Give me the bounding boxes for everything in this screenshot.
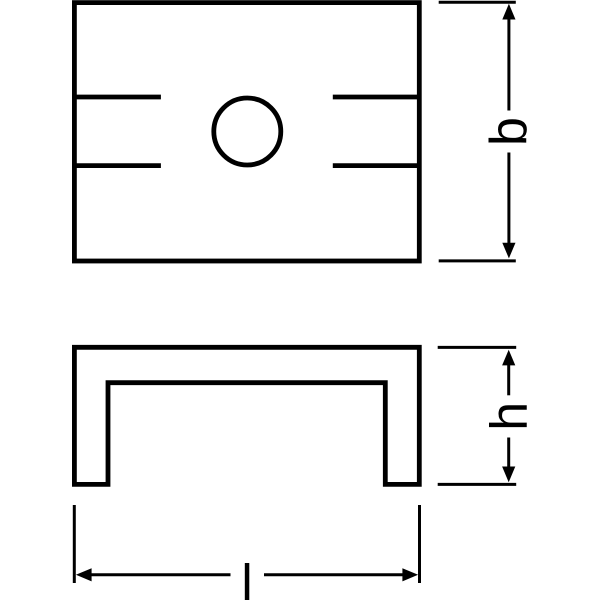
svg-text:l: l — [241, 554, 252, 600]
svg-text:h: h — [480, 402, 538, 431]
svg-text:b: b — [480, 117, 538, 146]
